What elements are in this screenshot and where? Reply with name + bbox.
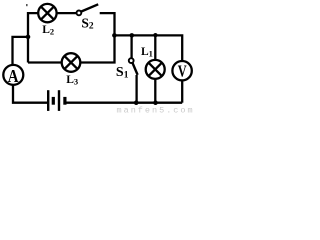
svg-text:L3: L3 [66,74,78,87]
battery: cell 1 long plate [47,90,49,111]
lamp L1 [146,60,165,79]
switch S2 pivot [77,11,82,16]
wire: S1 branch top [130,35,132,58]
wire: top-left vertical and top row into lamp L2 [28,13,38,62]
battery: cell 1 short plate [52,97,55,105]
node: junction dot bottom S1 [134,100,139,105]
wire: top bus and right edge down to voltmeter [115,35,183,61]
lamp L3 [62,53,81,72]
wire: branch to ammeter [13,37,29,65]
wire: bottom bus right of battery [67,102,183,104]
wire: voltmeter bottom [181,80,183,102]
wire: lamp L2 to switch S2 [57,12,77,14]
node: junction dot bus L1 [153,33,157,37]
svg-text:manfen5.com: manfen5.com [117,105,194,113]
wire: S1 branch bottom [135,75,137,103]
node: junction dot bus S1 [130,33,135,38]
lamp L2 [38,4,56,22]
svg-text:L1: L1 [141,46,153,59]
wire: L1 branch top [154,35,156,60]
speck artifact top-left [26,4,28,6]
wire: L1 branch bottom [154,79,156,103]
switch S2 blade [81,4,98,11]
svg-text:L2: L2 [42,24,54,37]
node: junction dot bottom L1 [153,100,158,105]
wire: ammeter down to bottom bus, left of battery [13,85,47,103]
node: junction dot bus left [112,33,117,38]
wire: switch S2 right, down right-top corner to middle row [80,13,114,62]
node: junction dot left vertical [26,35,31,40]
battery: cell 2 short plate [63,97,66,105]
voltmeter V [172,61,191,80]
svg-text:A: A [8,66,19,86]
switch S1 blade [133,63,138,75]
wire: middle row left of lamp L3 [28,61,62,63]
svg-text:V: V [178,61,187,80]
battery: cell 2 long plate [58,90,60,111]
switch S1 pivot [129,58,134,63]
ammeter A [3,65,23,85]
